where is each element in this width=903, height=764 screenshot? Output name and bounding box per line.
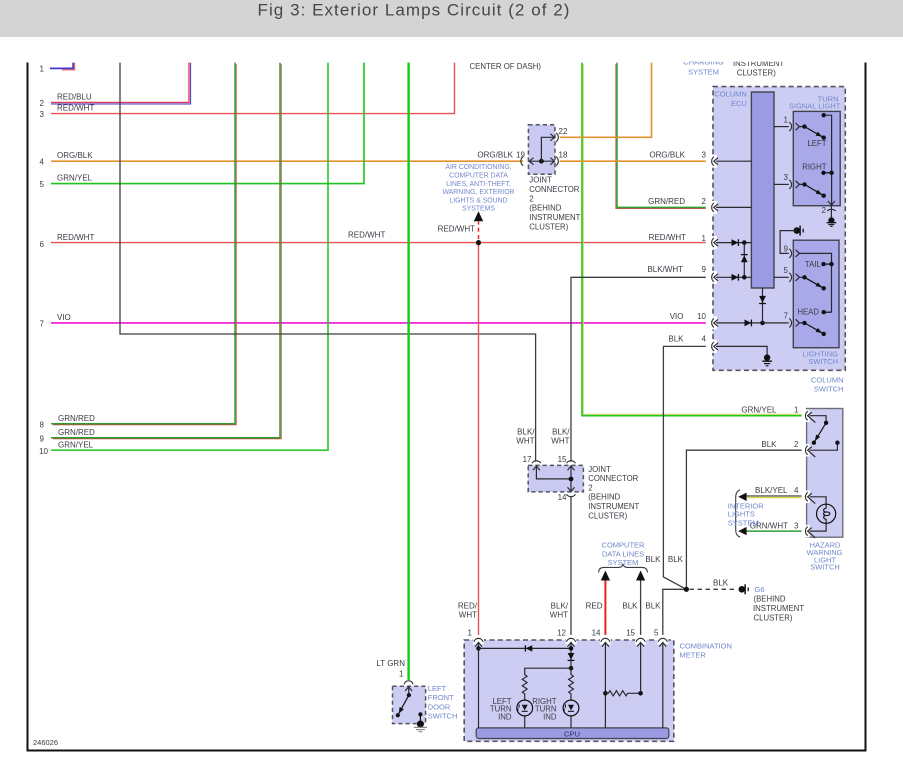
turn box pin 1 arc <box>789 122 791 131</box>
svg-text:4: 4 <box>40 158 45 167</box>
joint connector 2: pin 15 arc <box>567 461 576 463</box>
wire BLK stub to computer data lines system <box>640 579 642 636</box>
svg-text:LEFT: LEFT <box>428 684 447 693</box>
arrow up on RED stub <box>601 571 610 581</box>
svg-text:CPU: CPU <box>564 729 580 738</box>
svg-text:BLK: BLK <box>645 555 661 564</box>
svg-text:BLK: BLK <box>713 578 729 587</box>
svg-text:METER: METER <box>680 651 707 660</box>
resistor left turn <box>522 675 527 701</box>
svg-text:COMPUTER DATA: COMPUTER DATA <box>449 173 508 180</box>
svg-text:2: 2 <box>529 194 533 203</box>
ground at column pin 4 <box>762 355 772 366</box>
svg-text:CLUSTER): CLUSTER) <box>588 511 627 520</box>
svg-text:SYSTEMS: SYSTEMS <box>462 206 495 213</box>
diode up on internal vertical <box>741 255 748 263</box>
joint connector 2: pin 17 chevron <box>533 466 540 470</box>
wire GRN/YEL riser to hazard switch pin 1 (yellow offset) <box>583 64 802 414</box>
svg-text:3: 3 <box>40 110 45 119</box>
wire 6 RED/WHT to column switch pin 1 <box>51 242 706 244</box>
svg-text:BLK: BLK <box>622 602 638 611</box>
hazard pin 1 connector <box>802 409 816 422</box>
svg-text:DATA LINES: DATA LINES <box>602 549 644 558</box>
interior lights bracket <box>736 490 741 537</box>
column ECU block <box>751 92 774 288</box>
hazard pin 4 connector <box>802 491 816 504</box>
lighting pin 9 feed line <box>780 231 797 254</box>
svg-text:HEAD: HEAD <box>797 308 819 317</box>
ground under turn box <box>827 218 837 227</box>
wire 2 RED part <box>51 63 189 103</box>
hazard pin 1 internal lead <box>810 416 827 423</box>
turn box pin 3 link <box>774 183 789 185</box>
svg-text:RED/WHT: RED/WHT <box>348 231 385 240</box>
svg-text:CLUSTER): CLUSTER) <box>754 613 793 622</box>
svg-text:3: 3 <box>702 150 707 159</box>
svg-text:7: 7 <box>784 311 789 320</box>
svg-text:1: 1 <box>40 65 45 74</box>
G6 connector symbol <box>739 584 748 594</box>
joint connector top label <box>529 176 580 232</box>
svg-text:VIO: VIO <box>57 313 71 322</box>
svg-text:RED: RED <box>586 602 603 611</box>
meter pin 1 junction dot <box>476 646 481 651</box>
wire LT GRN vertical to door switch <box>407 63 409 680</box>
turn box top right feed <box>824 115 832 205</box>
wire 1 RED offset <box>62 63 75 70</box>
svg-text:1: 1 <box>794 406 799 415</box>
diode on column pin 10 line <box>745 320 752 327</box>
hazard switch blade <box>812 421 829 445</box>
svg-text:RIGHT: RIGHT <box>802 162 826 171</box>
svg-text:RED/WHT: RED/WHT <box>438 225 475 234</box>
meter pin 14 connector <box>600 635 611 647</box>
turn box pin 3 arc <box>789 180 791 189</box>
svg-text:(BEHIND: (BEHIND <box>529 204 561 213</box>
wire BLK from junction to combination meter pin 5 <box>663 589 687 635</box>
wire 7 VIO to column switch pin 10 <box>51 322 706 324</box>
meter pin 5 internal line <box>662 642 664 728</box>
joint connector 2 label <box>588 465 639 521</box>
junction node on wire 6 <box>476 240 481 245</box>
svg-text:GRN/YEL: GRN/YEL <box>57 173 93 182</box>
svg-text:18: 18 <box>559 150 568 159</box>
left front door switch box <box>393 686 426 723</box>
hazard pin 4 internal lead <box>810 497 827 504</box>
top cut labels clip <box>683 58 784 68</box>
lighting pin 5 arc <box>789 273 791 282</box>
svg-text:14: 14 <box>592 629 601 638</box>
CPU block <box>476 728 669 739</box>
svg-text:SIGNAL LIGHT: SIGNAL LIGHT <box>789 102 841 111</box>
right turn lamp lead to CPU <box>570 716 572 728</box>
lighting pin 9 arc <box>789 249 791 258</box>
diode on column pin 1 line <box>732 239 739 246</box>
horizontal resistor between pins 14 and 15 <box>605 691 640 696</box>
svg-text:WHT: WHT <box>459 610 477 619</box>
svg-text:2: 2 <box>702 197 707 206</box>
svg-text:17: 17 <box>523 455 532 464</box>
svg-text:BLK: BLK <box>668 335 684 344</box>
svg-text:SYSTEM: SYSTEM <box>608 558 639 567</box>
svg-text:BLK/WHT: BLK/WHT <box>647 265 683 274</box>
dashed RED branch up from wire 6 junction <box>478 222 480 240</box>
svg-text:SWITCH: SWITCH <box>428 712 458 721</box>
HEAD contact dot <box>822 310 832 314</box>
hazard lamp <box>817 504 836 523</box>
svg-text:BLK/: BLK/ <box>552 428 570 437</box>
svg-text:CENTER OF DASH): CENTER OF DASH) <box>470 62 542 71</box>
wire BLK/YEL to hazard pin 4 (black part) <box>746 495 802 497</box>
pin 14 junction dot <box>603 691 608 696</box>
svg-text:2: 2 <box>822 206 827 215</box>
TAIL contact dots <box>821 262 833 266</box>
lighting pin 7 arc <box>789 318 791 327</box>
svg-text:RED/WHT: RED/WHT <box>57 233 94 242</box>
door switch ground <box>414 721 427 732</box>
arrow up to systems note <box>474 211 483 221</box>
svg-text:CONNECTOR: CONNECTOR <box>588 474 638 483</box>
svg-text:SWITCH: SWITCH <box>810 563 840 572</box>
svg-text:ORG/BLK: ORG/BLK <box>57 151 93 160</box>
wire GRN/RED riser to column pin 2 <box>617 63 706 208</box>
svg-text:19: 19 <box>516 150 525 159</box>
AIR CONDITIONING systems note <box>442 164 514 213</box>
wire BLK/WHT from joint connector 2 pin 14 to meter pin 12 <box>570 497 572 636</box>
meter pin 15 internal line <box>640 642 642 693</box>
wire 3 RED/WHT <box>51 63 455 114</box>
svg-text:22: 22 <box>559 127 568 136</box>
svg-text:COLUMN: COLUMN <box>714 89 747 98</box>
svg-text:WARNING, EXTERIOR: WARNING, EXTERIOR <box>442 189 514 196</box>
wire GRN/RED riser to column pin 2 (red offset) <box>616 64 706 209</box>
wire 9 GRN/RED <box>51 63 280 438</box>
resistor right turn <box>569 668 574 700</box>
svg-text:Fig 3: Exterior Lamps Circuit: Fig 3: Exterior Lamps Circuit (2 of 2) <box>258 1 571 20</box>
svg-text:CLUSTER): CLUSTER) <box>737 68 776 77</box>
svg-text:JOINT: JOINT <box>588 465 611 474</box>
wire 5 GRN/YEL <box>51 63 364 184</box>
svg-text:SWITCH: SWITCH <box>814 385 844 394</box>
internal vertical from ECU bottom <box>762 288 764 323</box>
left turn indicator lamp <box>517 700 533 716</box>
wire BLK/WHT from column pin 9 to joint connector 2 pin 15 <box>571 277 706 461</box>
turn box pin 3 chevron <box>796 181 805 188</box>
svg-text:LEFT: LEFT <box>807 139 826 148</box>
svg-text:GRN/RED: GRN/RED <box>648 197 685 206</box>
svg-text:INSTRUMENT: INSTRUMENT <box>588 502 639 511</box>
column switch dashed box <box>713 87 845 371</box>
hazard pin 3 connector <box>802 525 816 538</box>
joint connector 2 (top) box <box>528 125 555 175</box>
hazard pin 2 internal lead <box>810 443 838 451</box>
wire BLK/YEL to hazard pin 4 (yellow part) <box>746 497 802 499</box>
svg-text:(BEHIND: (BEHIND <box>588 493 620 502</box>
svg-text:2: 2 <box>40 99 45 108</box>
joint connector 2 (lower) box <box>528 465 583 492</box>
hazard pin 3 internal lead <box>810 523 827 531</box>
turn box pin 2 ground lead <box>830 206 832 219</box>
wire RED/WHT vertical from wire 6 junction to meter pin 1 <box>478 243 480 636</box>
svg-text:BLK: BLK <box>645 602 661 611</box>
brace over computer data lines arrows <box>599 564 648 573</box>
turn box pin 1 link <box>774 126 789 128</box>
right row contact dots <box>821 171 834 175</box>
svg-text:G6: G6 <box>755 585 765 594</box>
svg-text:RED/BLU: RED/BLU <box>57 92 92 101</box>
svg-text:COLUMN: COLUMN <box>811 375 844 384</box>
joint connector top: pin 18 chevron <box>550 158 554 165</box>
HEAD switch blade <box>802 321 826 336</box>
svg-text:6: 6 <box>40 240 45 249</box>
svg-text:CLUSTER): CLUSTER) <box>529 223 568 232</box>
svg-text:INSTRUMENT: INSTRUMENT <box>753 604 804 613</box>
svg-text:GRN/RED: GRN/RED <box>58 414 95 423</box>
svg-text:8: 8 <box>40 421 45 430</box>
joint connector 2: pin 17 arc <box>532 461 541 463</box>
svg-text:246026: 246026 <box>33 738 58 747</box>
svg-text:FRONT: FRONT <box>428 693 454 702</box>
svg-text:BLK/YEL: BLK/YEL <box>755 486 788 495</box>
wire ORG/BLK from joint connector pin 18 to column pin 3 <box>560 160 706 162</box>
svg-text:LINES, ANTI-THEFT,: LINES, ANTI-THEFT, <box>446 181 511 188</box>
svg-text:LIGHTS: LIGHTS <box>728 510 755 519</box>
column pin 4 connector <box>708 340 768 355</box>
lighting pin 9 chevron <box>796 250 802 257</box>
svg-text:SYSTEM: SYSTEM <box>728 518 759 527</box>
lighting pin 9 connector-ground symbol <box>794 226 803 236</box>
wire BLK from hazard pin 2 down to junction <box>686 450 802 589</box>
wire ORG riser from joint connector pin 22 <box>560 63 652 138</box>
column pin 10 connector <box>708 316 789 329</box>
svg-text:CONNECTOR: CONNECTOR <box>529 185 579 194</box>
svg-text:GRN/YEL: GRN/YEL <box>58 440 94 449</box>
lighting pin 7 chevron <box>796 319 805 326</box>
svg-text:INSTRUMENT: INSTRUMENT <box>529 213 580 222</box>
hazard pin 2 connector <box>802 444 816 457</box>
svg-text:COMPUTER: COMPUTER <box>602 541 646 550</box>
svg-text:14: 14 <box>558 493 567 502</box>
svg-text:BLK: BLK <box>668 555 684 564</box>
door switch blade <box>396 687 411 718</box>
door switch pin chevron <box>405 687 412 691</box>
joint connector 2: junction dot <box>569 477 574 482</box>
arrow to interior lights system (pin 4) <box>738 493 746 501</box>
branch to left turn indicator <box>525 668 571 675</box>
svg-text:JOINT: JOINT <box>529 176 552 185</box>
svg-text:5: 5 <box>40 180 45 189</box>
header bar <box>0 0 903 37</box>
meter pin 1 connector <box>473 635 484 647</box>
svg-text:4: 4 <box>702 335 707 344</box>
wire 1 BLU <box>50 63 73 69</box>
junction dot ground node <box>684 587 689 592</box>
svg-text:5: 5 <box>784 266 789 275</box>
meter pin 1 internal line <box>478 642 480 728</box>
door switch pin arc <box>404 681 413 685</box>
diode down under pin 12 <box>568 653 575 660</box>
arrow up on BLK stub <box>636 571 645 581</box>
joint connector 2: pin 14 arc <box>567 494 576 496</box>
HAZARD WARNING LIGHT SWITCH label <box>807 541 843 572</box>
svg-text:9: 9 <box>784 245 789 254</box>
wire 9 RED offset <box>53 64 281 439</box>
joint connector top: pin 18 arc <box>556 157 558 166</box>
joint connector 2: internal branch <box>536 466 571 479</box>
column pin 2 connector <box>708 201 752 214</box>
svg-text:7: 7 <box>40 320 45 329</box>
right turn indicator lamp <box>563 700 579 716</box>
svg-text:1: 1 <box>784 115 789 124</box>
LEFT switch blade <box>802 124 826 139</box>
svg-text:SYSTEM: SYSTEM <box>688 68 719 77</box>
meter pin 15 connector <box>635 635 646 647</box>
joint connector top: pin 22 arc <box>556 133 558 142</box>
diode on column pin 9 line <box>732 274 739 281</box>
arrow to interior lights system (pin 3) <box>738 527 746 535</box>
wire BLK from column pin 4 down to junction <box>663 346 705 589</box>
wire RED stub to computer data lines system <box>604 579 606 636</box>
svg-text:AIR CONDITIONING,: AIR CONDITIONING, <box>445 164 511 171</box>
svg-text:BLK: BLK <box>761 440 777 449</box>
turn box top contact dot <box>822 113 826 117</box>
svg-text:10: 10 <box>39 447 48 456</box>
svg-text:RED/: RED/ <box>458 601 478 610</box>
svg-text:12: 12 <box>557 629 566 638</box>
svg-text:3: 3 <box>794 521 799 530</box>
meter pin 12 internal line <box>570 642 572 668</box>
svg-text:2: 2 <box>794 440 799 449</box>
joint connector top: junction dot <box>539 159 544 164</box>
svg-text:WHT: WHT <box>516 437 534 446</box>
svg-text:10: 10 <box>697 312 706 321</box>
RIGHT switch blade <box>802 182 826 198</box>
svg-text:GRN/RED: GRN/RED <box>58 428 95 437</box>
turn box pin 1 chevron <box>796 123 805 130</box>
svg-text:ORG/BLK: ORG/BLK <box>477 150 513 159</box>
joint connector top: pin 19 chevron <box>529 158 533 165</box>
wire GRN/WHT to hazard pin 3 <box>746 530 802 532</box>
joint connector top: internal through line <box>529 160 554 162</box>
lighting internal top line <box>802 253 832 312</box>
joint connector 2: pin 15 chevron <box>568 466 575 470</box>
svg-text:TAIL: TAIL <box>805 260 822 269</box>
wire BLK dashed to G6 <box>690 588 738 590</box>
svg-text:15: 15 <box>626 629 635 638</box>
left turn lamp lead to CPU <box>524 716 526 728</box>
svg-text:RED/WHT: RED/WHT <box>57 104 94 113</box>
internal horizontal with diode <box>479 647 572 649</box>
svg-text:1: 1 <box>702 234 707 243</box>
lower junction dot pin 12 <box>569 666 574 671</box>
svg-text:15: 15 <box>558 455 567 464</box>
svg-text:IND: IND <box>498 712 512 721</box>
svg-text:BLK/: BLK/ <box>551 601 569 610</box>
TAIL switch blade <box>802 275 826 290</box>
lighting pin 5 chevron <box>796 274 805 281</box>
hazard warning light switch box <box>807 409 843 538</box>
joint connector 2: internal through line <box>570 466 572 492</box>
wire 10 GRN/YEL <box>51 63 328 451</box>
internal vertical between pin1 and pin9 <box>743 243 745 278</box>
meter pin 14 internal line <box>604 642 606 728</box>
diode down on ECU bottom vertical <box>759 296 766 304</box>
joint connector top: pin 19 arc <box>521 157 523 166</box>
svg-text:SWITCH: SWITCH <box>808 357 838 366</box>
wire 8 GRN/RED <box>51 63 235 424</box>
svg-text:IND: IND <box>543 712 557 721</box>
lighting switch box <box>793 240 839 348</box>
svg-text:ORG/BLK: ORG/BLK <box>649 150 685 159</box>
combination meter dashed box <box>464 640 674 741</box>
column pin 3 connector <box>708 155 752 168</box>
column pin 9 connector <box>708 271 752 284</box>
wire 8 RED offset <box>53 64 236 425</box>
svg-text:ECU: ECU <box>731 99 747 108</box>
svg-text:4: 4 <box>794 486 799 495</box>
svg-text:COMBINATION: COMBINATION <box>680 641 732 650</box>
junction dot pin 1 <box>742 240 747 245</box>
svg-text:9: 9 <box>702 265 707 274</box>
turn box pin 2 chevron (bottom exit) <box>828 201 835 205</box>
svg-text:3: 3 <box>784 173 789 182</box>
svg-text:1: 1 <box>399 669 404 678</box>
svg-text:GRN/YEL: GRN/YEL <box>741 406 777 415</box>
junction dot pin 9 <box>742 275 747 280</box>
svg-text:LT GRN: LT GRN <box>376 659 405 668</box>
wire 2 BLU part <box>51 63 191 104</box>
turn signal light box <box>793 111 840 205</box>
svg-text:LIGHTS & SOUND: LIGHTS & SOUND <box>449 197 507 204</box>
wire GRN/YEL riser to hazard switch pin 1 <box>582 63 802 416</box>
meter pin 5 connector <box>657 635 668 647</box>
svg-text:DOOR: DOOR <box>428 702 451 711</box>
joint connector top: pin 22 chevron <box>550 134 554 141</box>
lighting pin 5 link from ECU <box>774 276 789 278</box>
diode left on internal horizontal <box>525 645 532 651</box>
joint connector top: branch to pin 22 <box>541 137 554 161</box>
svg-text:1: 1 <box>468 629 473 638</box>
column pin 1 connector <box>708 236 752 249</box>
svg-text:(BEHIND: (BEHIND <box>754 595 786 604</box>
wire BLK from top to joint connector 2 pin 17 <box>120 63 536 462</box>
wire 4 ORG/BLK to joint connector pin 19 <box>51 160 523 162</box>
svg-text:RED/WHT: RED/WHT <box>649 233 686 242</box>
svg-text:WHT: WHT <box>550 610 568 619</box>
pin 15 junction dot <box>638 691 643 696</box>
svg-text:VIO: VIO <box>670 312 684 321</box>
hazard pin 2 contact dot <box>835 441 839 445</box>
door switch right contact <box>418 712 422 721</box>
junction dot pin 10 <box>760 321 765 326</box>
meter pin 12 connector <box>566 635 577 647</box>
svg-text:WHT: WHT <box>551 437 569 446</box>
turn box pin 2 arc <box>827 209 836 211</box>
joint connector 2: pin 14 chevron <box>568 487 575 491</box>
svg-text:BLK/: BLK/ <box>517 428 535 437</box>
svg-text:9: 9 <box>40 435 45 444</box>
svg-text:2: 2 <box>588 484 592 493</box>
meter pin 12 junction dot <box>569 646 574 651</box>
